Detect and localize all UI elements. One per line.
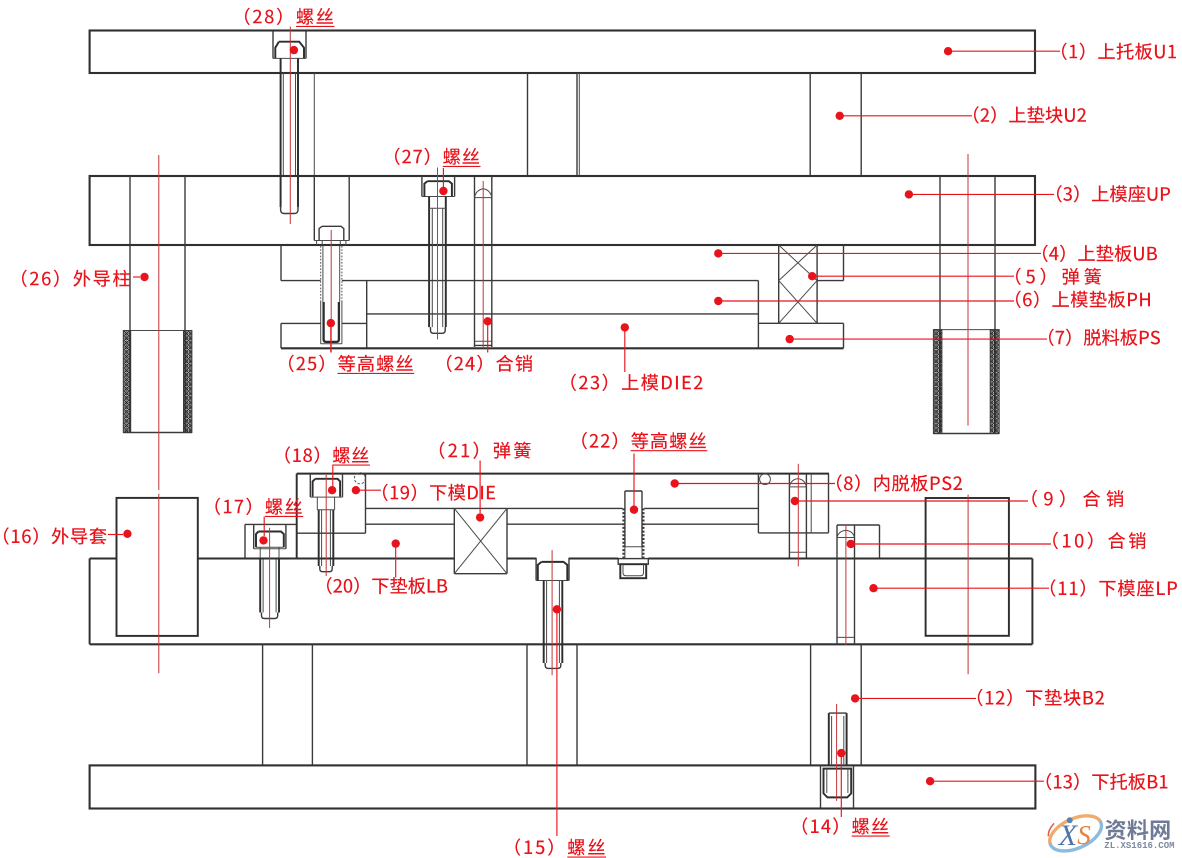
svg-text:ZL.XS1616.COM: ZL.XS1616.COM: [1104, 841, 1174, 851]
svg-text:X: X: [1058, 819, 1079, 852]
svg-text:S: S: [1077, 820, 1091, 850]
